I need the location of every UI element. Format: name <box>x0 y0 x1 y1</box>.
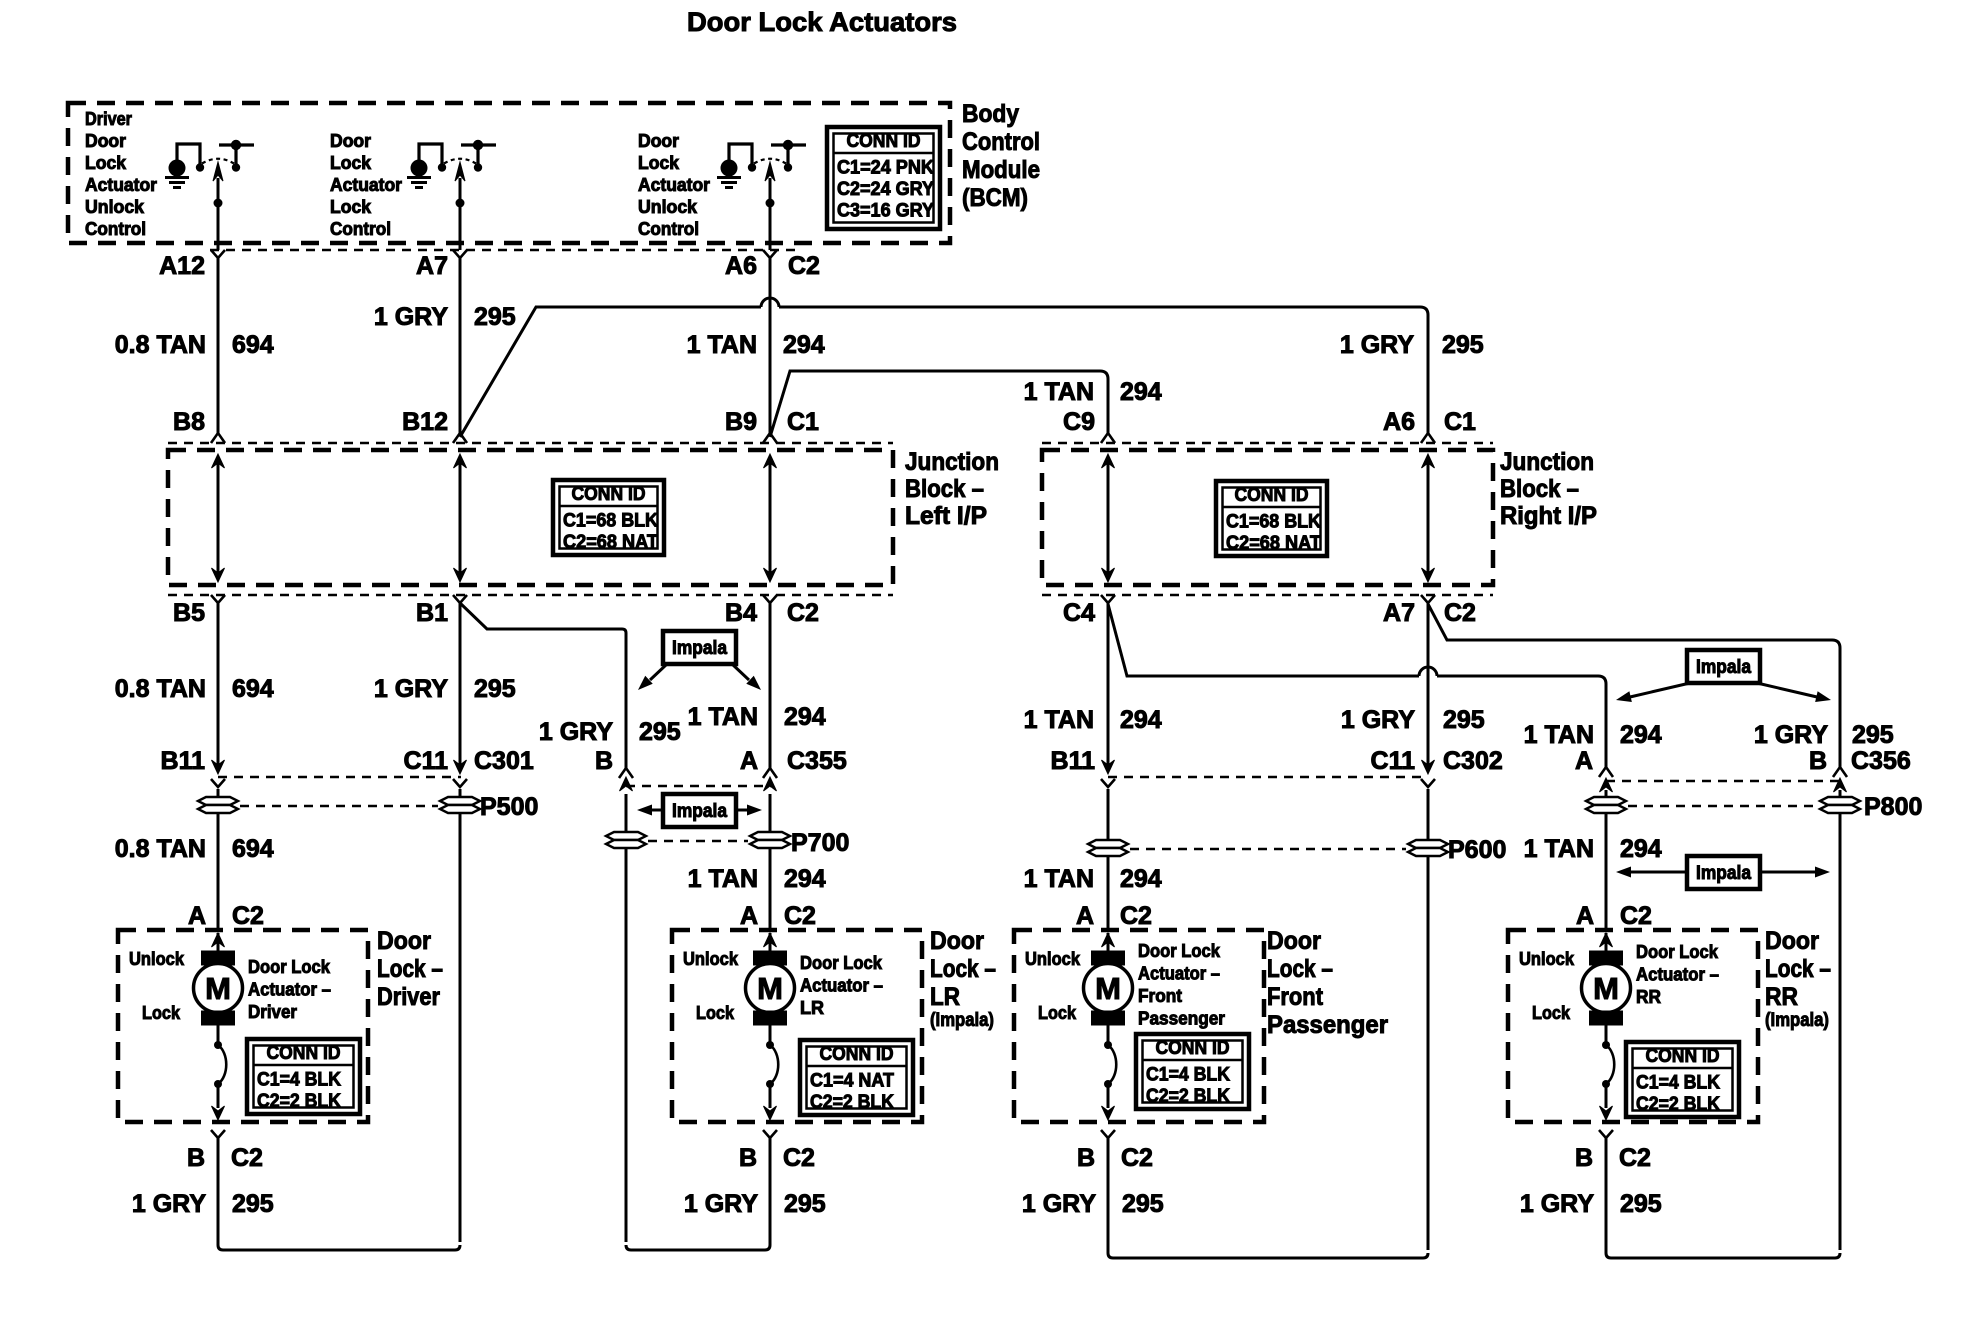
svg-text:Control: Control <box>638 219 699 239</box>
inline connector P700 <box>606 794 849 857</box>
svg-text:C1=68 BLK: C1=68 BLK <box>563 511 658 532</box>
inline connector P800 <box>1586 790 1922 821</box>
svg-text:Actuator –: Actuator – <box>248 980 331 1000</box>
switch contact ground ball at pole x=770 <box>721 160 738 177</box>
svg-text:Door: Door <box>638 131 679 151</box>
switch S3 unlock control <box>717 140 806 250</box>
svg-text:Front: Front <box>1138 986 1182 1006</box>
svg-text:C2: C2 <box>1444 599 1476 627</box>
svg-text:C11: C11 <box>1371 747 1416 775</box>
switch pole arm with arrowhead <box>769 178 772 250</box>
motor brush top <box>1092 951 1125 965</box>
C301 glyph B11 <box>212 760 225 774</box>
motor body circle M <box>1084 964 1133 1013</box>
svg-text:M: M <box>1593 971 1619 1006</box>
switch S2 lock control <box>407 140 496 250</box>
Impala callout below C355 <box>637 794 762 827</box>
svg-text:B8: B8 <box>173 408 205 436</box>
motor M <box>1582 933 1631 1120</box>
inline connector P600 <box>1088 836 1506 864</box>
wire 294 P700 to LR actuator A <box>769 848 772 930</box>
wire to B pin with arrow <box>217 1084 220 1108</box>
svg-text:1 GRY: 1 GRY <box>132 1190 206 1218</box>
svg-text:C1=4 BLK: C1=4 BLK <box>257 1070 341 1091</box>
svg-text:Unlock: Unlock <box>638 197 698 217</box>
fork B below actuator <box>211 1130 225 1138</box>
svg-text:1 GRY: 1 GRY <box>684 1190 758 1218</box>
switch left throw wiring <box>729 144 752 164</box>
svg-text:C2=68 NAT: C2=68 NAT <box>1226 533 1321 554</box>
svg-text:1 GRY: 1 GRY <box>1520 1190 1594 1218</box>
svg-text:A: A <box>740 902 758 930</box>
svg-text:295: 295 <box>474 675 516 703</box>
svg-text:0.8 TAN: 0.8 TAN <box>115 835 206 863</box>
junction block internal wire x=218 <box>212 454 225 582</box>
actuator title <box>248 957 331 1022</box>
svg-text:C2=2 BLK: C2=2 BLK <box>1636 1094 1720 1115</box>
BCM dashed box <box>68 103 950 243</box>
svg-text:C1: C1 <box>787 408 819 436</box>
fork B1 <box>453 595 467 603</box>
svg-text:Unlock: Unlock <box>1519 949 1575 969</box>
svg-text:Junction: Junction <box>1500 448 1594 476</box>
actuator title <box>1636 942 1719 1007</box>
switch contact ground ball at pole x=218 <box>169 160 186 177</box>
fork B below actuator <box>1101 1130 1115 1138</box>
svg-text:CONN ID: CONN ID <box>1235 485 1309 506</box>
svg-text:Lock: Lock <box>1532 1003 1571 1023</box>
svg-text:A: A <box>1575 747 1593 775</box>
wire to B pin with arrow <box>1605 1084 1608 1108</box>
svg-text:Actuator: Actuator <box>330 175 402 195</box>
svg-text:B: B <box>1809 747 1827 775</box>
switch travel dashed arc <box>754 159 786 164</box>
Impala callout below P800 <box>1616 856 1830 889</box>
svg-text:294: 294 <box>783 331 825 359</box>
svg-text:A12: A12 <box>159 252 205 280</box>
svg-text:294: 294 <box>1620 835 1662 863</box>
switch travel dashed arc <box>444 159 476 164</box>
ground symbol <box>165 176 189 179</box>
wire below B <box>217 1138 220 1160</box>
svg-text:Impala: Impala <box>1696 657 1751 678</box>
svg-text:Actuator –: Actuator – <box>1636 965 1719 985</box>
fork B4 <box>763 595 777 603</box>
switch right throw wiring <box>461 143 496 146</box>
svg-text:Lock –: Lock – <box>1267 955 1333 983</box>
svg-text:Door Lock: Door Lock <box>1138 941 1221 961</box>
junction block internal wire x=770 <box>764 454 777 582</box>
svg-text:Junction: Junction <box>905 448 999 476</box>
label Junction Block Right I/P <box>1500 448 1597 530</box>
svg-text:1 TAN: 1 TAN <box>1024 865 1094 893</box>
actuator CONN ID table <box>247 1039 360 1114</box>
wire into motor with arrow <box>1605 933 1608 951</box>
svg-text:C2=24 GRY: C2=24 GRY <box>837 179 934 200</box>
wire 295 P800 to RR loop <box>1839 813 1842 1250</box>
door lock actuator dashed box <box>672 930 922 1122</box>
motor brush top <box>1590 951 1623 965</box>
outside label Door Lock <box>1765 927 1831 1031</box>
svg-text:C2: C2 <box>1121 1144 1153 1172</box>
svg-text:C2=2 BLK: C2=2 BLK <box>810 1092 894 1113</box>
connector fork A6 <box>763 250 777 258</box>
svg-text:1 GRY: 1 GRY <box>1022 1190 1096 1218</box>
svg-text:694: 694 <box>232 675 274 703</box>
C302 glyph C11 <box>1422 760 1435 774</box>
svg-text:C1=4 BLK: C1=4 BLK <box>1146 1065 1230 1086</box>
wire hop over C11 wire <box>1419 667 1437 676</box>
svg-text:294: 294 <box>1120 865 1162 893</box>
wire to B pin with arrow <box>769 1084 772 1108</box>
svg-text:295: 295 <box>232 1190 274 1218</box>
svg-text:(Impala): (Impala) <box>930 1010 994 1031</box>
svg-text:(BCM): (BCM) <box>962 184 1028 212</box>
svg-text:C4: C4 <box>1063 599 1095 627</box>
svg-text:C1=68 BLK: C1=68 BLK <box>1226 512 1321 533</box>
svg-text:C3=16 GRY: C3=16 GRY <box>837 201 934 222</box>
wire 294 P600 to FP actuator A <box>1107 856 1110 930</box>
svg-text:1 GRY: 1 GRY <box>1340 331 1414 359</box>
outside label Door Lock <box>1267 927 1388 1039</box>
svg-text:C1=24 PNK: C1=24 PNK <box>837 158 934 179</box>
switch left throw wiring <box>177 144 200 164</box>
svg-text:C1=4 NAT: C1=4 NAT <box>810 1071 894 1092</box>
svg-text:C2: C2 <box>788 252 820 280</box>
wire 295 B1 to C11 <box>459 603 462 772</box>
motor M <box>194 933 243 1120</box>
connector fork A12 <box>211 250 225 258</box>
svg-text:P500: P500 <box>480 793 538 821</box>
svg-text:C302: C302 <box>1443 747 1503 775</box>
right junction block internal wire x=1428 <box>1422 454 1435 582</box>
svg-text:Lock: Lock <box>142 1003 181 1023</box>
fork A6 right <box>1421 433 1435 443</box>
svg-text:Impala: Impala <box>672 801 727 822</box>
svg-text:C2=68 NAT: C2=68 NAT <box>563 532 658 553</box>
svg-text:B5: B5 <box>173 599 205 627</box>
svg-text:Lock: Lock <box>1038 1003 1077 1023</box>
wire 694 B5 to B11 <box>217 603 220 772</box>
connector C302 dashed line <box>1108 776 1428 779</box>
Impala callout above C355 <box>634 631 765 694</box>
connector C301 dashed line <box>218 776 461 779</box>
wire 294 branch C4 to C356 A <box>1108 604 1606 767</box>
motor body circle M <box>746 964 795 1013</box>
svg-text:C2: C2 <box>232 902 264 930</box>
svg-text:Lock –: Lock – <box>377 955 443 983</box>
svg-text:1 TAN: 1 TAN <box>688 865 758 893</box>
right junction block connector dashed line bottom <box>1042 594 1493 597</box>
svg-text:Door Lock: Door Lock <box>800 953 883 973</box>
door lock actuator dashed box <box>1014 930 1264 1122</box>
motor brush top <box>754 951 787 965</box>
svg-text:Control: Control <box>330 219 391 239</box>
svg-text:Lock: Lock <box>330 153 372 173</box>
svg-text:1 GRY: 1 GRY <box>539 718 613 746</box>
svg-text:Door: Door <box>1765 927 1819 955</box>
svg-text:295: 295 <box>1122 1190 1164 1218</box>
svg-text:Body: Body <box>962 100 1019 128</box>
svg-text:CONN ID: CONN ID <box>267 1043 341 1064</box>
label Door Lock Actuator Lock Control <box>330 131 402 239</box>
wire 294 B4 to C355 A <box>769 603 772 768</box>
outside label Door Lock <box>377 927 443 1011</box>
junction block internal wire x=460 <box>454 454 467 582</box>
svg-text:Door: Door <box>377 927 431 955</box>
C355 glyph A <box>763 768 777 778</box>
ground symbol <box>407 176 431 179</box>
svg-text:Driver: Driver <box>248 1002 297 1022</box>
switch pole arm with arrowhead <box>459 178 462 250</box>
Impala callout above C356 <box>1615 650 1832 705</box>
svg-text:M: M <box>1095 971 1121 1006</box>
wire 294 A6 to B9 <box>769 258 772 435</box>
svg-text:B: B <box>595 747 613 775</box>
svg-text:LR: LR <box>930 983 960 1011</box>
motor M <box>746 933 795 1120</box>
svg-text:C2: C2 <box>787 599 819 627</box>
C302 glyph B11 <box>1102 760 1115 774</box>
svg-text:A6: A6 <box>1383 408 1415 436</box>
wire below B <box>1605 1138 1608 1160</box>
wire 295 driver loop <box>218 1160 460 1250</box>
svg-text:694: 694 <box>232 835 274 863</box>
right junction block dashed box <box>1042 450 1493 585</box>
switch travel dashed arc <box>202 159 234 164</box>
svg-text:1 GRY: 1 GRY <box>374 675 448 703</box>
detent link <box>1605 1025 1608 1042</box>
svg-text:Door: Door <box>1267 927 1321 955</box>
svg-text:Left I/P: Left I/P <box>905 502 987 530</box>
svg-text:294: 294 <box>1120 378 1162 406</box>
svg-text:P600: P600 <box>1448 836 1506 864</box>
wire below B <box>1107 1138 1110 1160</box>
svg-text:LR: LR <box>800 998 824 1018</box>
wire to B pin with arrow <box>1107 1084 1110 1108</box>
svg-text:C355: C355 <box>787 747 847 775</box>
svg-text:1 TAN: 1 TAN <box>1524 721 1594 749</box>
wire into motor with arrow <box>217 933 220 951</box>
svg-text:C2: C2 <box>784 902 816 930</box>
svg-text:RR: RR <box>1636 987 1661 1007</box>
C355 glyph B <box>619 768 633 778</box>
fork B below actuator <box>763 1130 777 1138</box>
connector C355 dashed line <box>626 785 771 788</box>
svg-text:694: 694 <box>232 331 274 359</box>
connector C356 dashed line <box>1606 780 1841 783</box>
motor brush bottom <box>1092 1011 1125 1025</box>
svg-text:CONN ID: CONN ID <box>1156 1038 1230 1059</box>
right junction block internal wire x=1108 <box>1102 454 1115 582</box>
svg-text:Driver: Driver <box>377 983 440 1011</box>
actuator CONN ID table <box>1626 1042 1739 1117</box>
svg-text:295: 295 <box>1620 1190 1662 1218</box>
svg-text:B9: B9 <box>725 408 757 436</box>
svg-text:M: M <box>757 971 783 1006</box>
C356 glyph A <box>1599 767 1613 777</box>
fork B12 <box>453 433 467 443</box>
motor brush bottom <box>1590 1011 1623 1025</box>
wire 295 branch B12 to right junction block A6 <box>460 307 1428 437</box>
svg-text:C1=4 BLK: C1=4 BLK <box>1636 1073 1720 1094</box>
wire 295 A7 to C11 <box>1427 603 1430 772</box>
svg-text:B: B <box>1575 1144 1593 1172</box>
svg-text:1 TAN: 1 TAN <box>687 331 757 359</box>
svg-text:B11: B11 <box>161 747 206 775</box>
wire 295 branch A7 to C356 B <box>1428 604 1840 767</box>
wire 294 P800 to RR actuator A <box>1605 813 1608 930</box>
stub C11 to P600 <box>1427 789 1430 840</box>
svg-text:1 TAN: 1 TAN <box>688 703 758 731</box>
svg-text:1 GRY: 1 GRY <box>1341 706 1415 734</box>
svg-text:Impala: Impala <box>1696 863 1751 884</box>
wire 295 P500 to driver loop <box>459 813 462 1242</box>
svg-text:1 TAN: 1 TAN <box>1524 835 1594 863</box>
fork B5 <box>211 595 225 603</box>
detent link <box>217 1025 220 1042</box>
stub B11 to P600 <box>1107 789 1110 840</box>
svg-text:CONN ID: CONN ID <box>572 484 646 505</box>
switch pole arm with arrowhead <box>217 178 220 250</box>
svg-text:1 GRY: 1 GRY <box>374 303 448 331</box>
svg-text:Module: Module <box>962 156 1040 184</box>
label Junction Block Left I/P <box>905 448 999 530</box>
wire into motor with arrow <box>769 933 772 951</box>
wire 294 C4 to B11 <box>1107 603 1110 772</box>
svg-text:B: B <box>187 1144 205 1172</box>
svg-text:Unlock: Unlock <box>1025 949 1081 969</box>
svg-text:B: B <box>1077 1144 1095 1172</box>
wire 694 P500 to driver actuator A <box>217 813 220 930</box>
left junction block connector dashed line top <box>168 442 893 445</box>
svg-text:A6: A6 <box>725 252 757 280</box>
svg-text:A7: A7 <box>416 252 448 280</box>
svg-text:A: A <box>188 902 206 930</box>
svg-text:C2: C2 <box>1619 1144 1651 1172</box>
wire 295 P600 to FP loop <box>1427 856 1430 1250</box>
svg-text:RR: RR <box>1765 983 1798 1011</box>
svg-text:B1: B1 <box>416 599 448 627</box>
svg-text:C2: C2 <box>231 1144 263 1172</box>
svg-text:Impala: Impala <box>672 638 727 659</box>
svg-text:C2: C2 <box>1620 902 1652 930</box>
svg-text:Right I/P: Right I/P <box>1500 502 1597 530</box>
svg-text:Unlock: Unlock <box>129 949 185 969</box>
svg-text:(Impala): (Impala) <box>1765 1010 1829 1031</box>
outside label Door Lock <box>930 927 996 1031</box>
wire 295 RR loop <box>1606 1160 1840 1258</box>
fork A7 right <box>1421 595 1435 603</box>
motor brush top <box>202 951 235 965</box>
motor M <box>1084 933 1133 1120</box>
connector fork A7 <box>453 250 467 258</box>
ground symbol <box>717 176 741 179</box>
wire 295 LR loop <box>626 1160 770 1250</box>
motor body circle M <box>194 964 243 1013</box>
label Door Lock Actuator Unlock Control <box>638 131 710 239</box>
svg-text:M: M <box>205 971 231 1006</box>
actuator CONN ID table <box>800 1040 913 1115</box>
svg-text:Door: Door <box>85 131 126 151</box>
svg-text:Actuator: Actuator <box>85 175 157 195</box>
svg-text:Lock: Lock <box>696 1003 735 1023</box>
switch S1 driver unlock control <box>165 140 254 250</box>
motor body circle M <box>1582 964 1631 1013</box>
svg-text:Block –: Block – <box>1500 475 1579 503</box>
svg-text:A: A <box>1576 902 1594 930</box>
svg-text:Actuator –: Actuator – <box>1138 964 1220 984</box>
svg-text:Lock –: Lock – <box>1765 955 1831 983</box>
svg-text:C11: C11 <box>404 747 449 775</box>
svg-text:1 TAN: 1 TAN <box>1024 378 1094 406</box>
fork B8 <box>211 433 225 443</box>
svg-text:C356: C356 <box>1851 747 1911 775</box>
svg-text:B11: B11 <box>1051 747 1096 775</box>
svg-text:Lock –: Lock – <box>930 955 996 983</box>
svg-text:P800: P800 <box>1864 793 1922 821</box>
actuator title <box>1138 941 1225 1029</box>
switch left throw wiring <box>419 144 442 164</box>
svg-text:A: A <box>1076 902 1094 930</box>
svg-text:295: 295 <box>1443 706 1485 734</box>
actuator title <box>800 953 883 1018</box>
wire below B <box>769 1138 772 1160</box>
left junction block dashed box <box>168 450 893 585</box>
svg-text:C9: C9 <box>1063 408 1095 436</box>
svg-text:295: 295 <box>784 1190 826 1218</box>
wire 295 P700 to LR loop <box>625 848 628 1242</box>
svg-text:Control: Control <box>962 128 1040 156</box>
BCM connector dashed line <box>210 249 800 252</box>
svg-text:Block –: Block – <box>905 475 984 503</box>
svg-text:Actuator: Actuator <box>638 175 710 195</box>
svg-text:Front: Front <box>1267 983 1324 1011</box>
fork B9 <box>763 433 777 443</box>
svg-text:Passenger: Passenger <box>1138 1009 1225 1029</box>
door lock actuator dashed box <box>1508 930 1758 1122</box>
svg-text:294: 294 <box>1620 721 1662 749</box>
switch contact ground ball at pole x=460 <box>411 160 428 177</box>
fork C9 <box>1101 433 1115 443</box>
fork C4 <box>1101 595 1115 603</box>
svg-text:294: 294 <box>1120 706 1162 734</box>
detent link <box>769 1025 772 1042</box>
wire 295 A7 to B12 <box>459 258 462 435</box>
switch right throw wiring <box>771 143 806 146</box>
svg-text:CONN ID: CONN ID <box>820 1044 894 1065</box>
svg-text:Door Lock Actuators: Door Lock Actuators <box>687 7 957 37</box>
svg-text:Passenger: Passenger <box>1267 1011 1388 1039</box>
svg-text:C2: C2 <box>783 1144 815 1172</box>
C301 glyph C11 <box>454 760 467 774</box>
svg-text:A7: A7 <box>1383 599 1415 627</box>
svg-text:P700: P700 <box>791 829 849 857</box>
svg-text:C1: C1 <box>1444 408 1476 436</box>
svg-text:C301: C301 <box>474 747 534 775</box>
svg-text:Door Lock: Door Lock <box>1636 942 1719 962</box>
label Body Control Module BCM <box>962 100 1040 212</box>
svg-text:Door: Door <box>930 927 984 955</box>
label Driver Door Lock Actuator Unlock Control <box>85 109 157 239</box>
wire 295 Impala branch B1 to C355 B <box>460 603 626 768</box>
door lock actuator dashed box <box>118 930 368 1122</box>
svg-text:294: 294 <box>784 703 826 731</box>
svg-text:Driver: Driver <box>85 109 132 129</box>
wire 694 A12 to B8 <box>217 258 220 435</box>
svg-text:Actuator –: Actuator – <box>800 976 883 996</box>
motor brush bottom <box>754 1011 787 1025</box>
